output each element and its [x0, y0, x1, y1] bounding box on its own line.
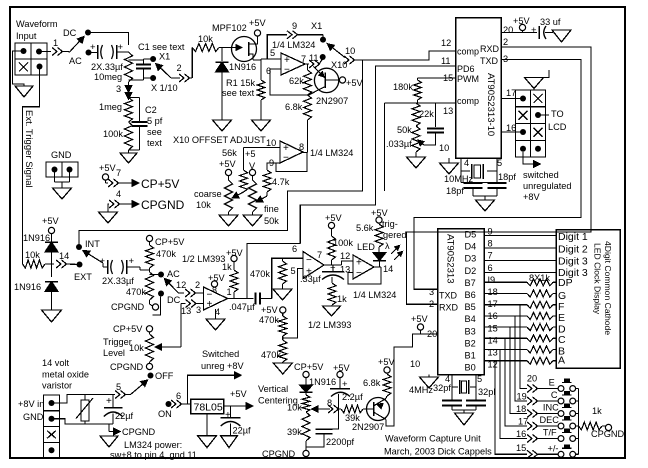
capacitor 22uf output — [221, 406, 251, 436]
node 3 arrows down — [116, 82, 132, 99]
svg-text:GND: GND — [51, 150, 72, 160]
svg-text:2X.33µf: 2X.33µf — [91, 62, 123, 72]
svg-text:LED Clock Display: LED Clock Display — [593, 243, 603, 315]
svg-text:56k: 56k — [222, 148, 237, 158]
label 14 volt metal oxide varistor — [42, 358, 89, 391]
svg-text:10meg: 10meg — [94, 72, 122, 82]
svg-text:D5: D5 — [465, 230, 477, 240]
transistor Q2 2N2907 offset — [309, 67, 340, 96]
svg-text:Level: Level — [103, 348, 125, 358]
wire comp node riser — [383, 103, 385, 191]
bus wire button +/- — [495, 361, 527, 455]
svg-text:−: − — [306, 255, 312, 266]
power +5V drain — [249, 18, 266, 36]
op-amp U1B 1/4 LM324 offset — [266, 138, 304, 168]
svg-text:33 uf: 33 uf — [540, 17, 561, 27]
svg-text:LED: LED — [357, 242, 375, 252]
svg-text:13: 13 — [443, 106, 453, 116]
svg-text:B5: B5 — [465, 302, 476, 312]
pin B7 IC2 — [465, 275, 496, 288]
svg-text:C: C — [558, 334, 566, 346]
svg-text:10: 10 — [266, 138, 276, 148]
svg-text:1k: 1k — [337, 294, 347, 304]
IC U4 AT90S2313 — [438, 229, 485, 375]
resistor 1k segment 7 — [484, 346, 556, 353]
svg-text:LM324 power:: LM324 power: — [124, 440, 182, 450]
svg-text:+5V: +5V — [378, 357, 395, 367]
svg-text:−: − — [356, 268, 362, 279]
pin 2 RXD IC2 — [429, 299, 459, 313]
svg-text:1/4 LM324: 1/4 LM324 — [272, 40, 315, 50]
ground crystal — [476, 200, 495, 211]
label switched unreg +8V — [201, 349, 245, 371]
svg-text:14: 14 — [59, 251, 69, 261]
svg-text:+: + — [118, 42, 124, 53]
resistor 6.8k vert — [363, 373, 391, 399]
svg-text:17: 17 — [506, 88, 516, 98]
svg-text:1N916: 1N916 — [309, 377, 336, 387]
svg-text:metal oxide: metal oxide — [42, 370, 89, 380]
label 1/4 LM324 offset — [310, 148, 353, 158]
svg-text:B4: B4 — [465, 314, 476, 324]
label 10MHz — [444, 174, 474, 184]
svg-text:10k: 10k — [25, 250, 40, 260]
ground LCD — [525, 70, 550, 90]
resistor 1k segment 2 — [484, 290, 556, 297]
bus wire button C — [515, 316, 527, 401]
svg-text:B0: B0 — [465, 363, 476, 373]
label C2 5pf see text — [145, 105, 163, 148]
wire ext trigger from input — [23, 67, 40, 265]
resistor 180k — [393, 78, 422, 103]
svg-text:CPGND: CPGND — [122, 427, 156, 437]
resistor 62k feedback — [289, 64, 312, 95]
LED trig — [357, 241, 403, 267]
comparator U3B LM393 triangle — [291, 244, 325, 279]
svg-text:+5: +5 — [245, 149, 255, 159]
svg-text:470k: 470k — [156, 249, 176, 259]
svg-text:2.2µf: 2.2µf — [342, 392, 363, 402]
crystal 4MHz — [445, 374, 482, 398]
svg-text:C1 see text: C1 see text — [138, 42, 185, 52]
svg-text:X1: X1 — [311, 21, 322, 31]
svg-text:470k: 470k — [126, 287, 146, 297]
label 4MHz 32pf 32pf — [409, 383, 495, 397]
labels comparator 1 pins — [176, 280, 232, 317]
connector GND — [46, 150, 78, 188]
pin B3 IC2 — [465, 323, 498, 336]
ground GND connector — [53, 188, 72, 199]
svg-text:Input: Input — [16, 31, 37, 41]
svg-text:8: 8 — [488, 239, 493, 249]
pin B0 IC2 — [465, 360, 498, 373]
svg-text:AC: AC — [167, 269, 180, 279]
svg-text:39k: 39k — [287, 427, 302, 437]
wire offset -input loop — [267, 153, 307, 172]
op-amp U1A 1/4 LM324 — [266, 40, 315, 76]
svg-text:−: − — [284, 64, 290, 75]
svg-text:1k: 1k — [222, 262, 232, 272]
varistor — [76, 395, 93, 425]
svg-text:INT: INT — [85, 239, 100, 249]
capacitor 32pf left — [442, 398, 462, 410]
switch X1/X10 wiper — [327, 43, 363, 64]
label 2N2907 offset — [316, 96, 348, 106]
svg-text:+: + — [531, 25, 537, 36]
node 2 arrows — [177, 63, 193, 82]
label TO LCD — [548, 109, 567, 132]
svg-text:C: C — [551, 390, 558, 400]
svg-text:10: 10 — [439, 143, 449, 153]
svg-text:DEC: DEC — [540, 415, 560, 425]
resistor 10meg — [125, 52, 133, 82]
wire output 14 — [374, 264, 393, 274]
svg-text:AT90S2313: AT90S2313 — [445, 234, 456, 283]
svg-text:5: 5 — [116, 382, 121, 392]
svg-text:TO: TO — [551, 109, 564, 119]
button +/- — [516, 443, 578, 458]
svg-text:16: 16 — [516, 429, 526, 439]
wire LCD row2 — [538, 114, 549, 116]
pin D3 IC2 — [465, 251, 493, 264]
svg-text:AT90S2313-10: AT90S2313-10 — [485, 73, 496, 136]
svg-text:2200pf: 2200pf — [326, 437, 355, 447]
svg-text:10k: 10k — [196, 200, 211, 210]
resistor 1k segment 3 — [484, 301, 556, 308]
svg-text:Waveform Capture Unit: Waveform Capture Unit — [385, 434, 481, 444]
svg-text:varistor: varistor — [42, 381, 72, 391]
wire plus input op3 — [342, 261, 354, 265]
label 2X.33uf 10meg — [91, 62, 123, 82]
power CP+5V trigger level — [113, 324, 153, 334]
svg-text:AC: AC — [69, 56, 82, 66]
svg-text:10k: 10k — [129, 343, 144, 353]
svg-text:MPF102: MPF102 — [212, 23, 247, 33]
wire DC bypass — [88, 33, 129, 46]
svg-text:15: 15 — [516, 443, 526, 453]
pin D5 IC2 — [465, 227, 493, 240]
svg-text:2: 2 — [429, 299, 434, 309]
label Waveform Input — [16, 19, 58, 41]
wiper vertical centering — [312, 406, 330, 412]
svg-text:7: 7 — [488, 251, 493, 261]
svg-text:I9: I9 — [488, 275, 496, 285]
capacitor C2 — [129, 98, 148, 151]
svg-text:14: 14 — [488, 335, 498, 345]
svg-text:4.7k: 4.7k — [272, 177, 290, 187]
svg-text:78L05: 78L05 — [194, 402, 223, 414]
regulator 78L05 — [191, 399, 224, 414]
svg-text:+5V: +5V — [99, 163, 116, 173]
svg-text:22µf: 22µf — [115, 411, 134, 421]
terminal CPGND trigger — [111, 302, 159, 312]
svg-text:coarse: coarse — [194, 189, 222, 199]
svg-text:X10: X10 — [331, 60, 347, 70]
button INC — [516, 403, 578, 418]
svg-text:CPGND: CPGND — [262, 449, 296, 459]
svg-text:D2: D2 — [465, 266, 477, 276]
svg-text:−: − — [283, 152, 289, 163]
wire switched unregulated arrow — [523, 152, 540, 167]
wire collector loop — [386, 334, 421, 426]
connector TO LCD — [516, 90, 546, 157]
power +5V trigger clamp — [42, 216, 59, 234]
svg-text:PWM: PWM — [457, 74, 479, 84]
resistor 1k segment 5 — [484, 324, 556, 331]
svg-text:100k: 100k — [333, 238, 353, 248]
node AC dot trigger — [150, 269, 181, 279]
resistor 100k input — [103, 122, 133, 150]
svg-text:11: 11 — [441, 56, 451, 66]
node X1-10 contact — [144, 75, 178, 93]
svg-text:unregulated: unregulated — [523, 181, 572, 191]
wire comp2 output — [324, 264, 342, 266]
svg-text:Digit 1: Digit 1 — [558, 231, 588, 243]
bus wire button INC — [510, 327, 527, 413]
resistor 1k segment 8 — [484, 357, 556, 364]
power +5V IC2 pin20 — [411, 314, 438, 339]
pin 16 wire LCD — [501, 123, 523, 133]
switch INT/EXT — [74, 239, 103, 282]
switch ON/OFF — [113, 371, 174, 399]
svg-text:DC: DC — [63, 28, 77, 38]
svg-text:+8V: +8V — [523, 192, 540, 202]
svg-text:7: 7 — [116, 168, 121, 178]
capacitor 18pf left — [446, 183, 483, 196]
svg-text:180k: 180k — [393, 82, 413, 92]
resistor 470k divider upper — [259, 313, 287, 336]
svg-text:comp: comp — [457, 47, 479, 57]
resistor 1k buttons — [578, 406, 607, 430]
ground 50k pot — [407, 157, 426, 168]
wire power top — [52, 395, 114, 404]
label 8X1k — [529, 273, 550, 283]
label X10 — [331, 60, 347, 70]
wire buffer X1 top — [267, 21, 326, 59]
capacitor 18pf right — [488, 172, 517, 196]
svg-text:OFF: OFF — [155, 371, 174, 381]
svg-text:17: 17 — [518, 417, 528, 427]
svg-text:X10 OFFSET ADJUST: X10 OFFSET ADJUST — [173, 135, 266, 145]
pin 20 power IC1 — [501, 16, 537, 35]
button DEC — [518, 415, 578, 430]
svg-text:6: 6 — [488, 263, 493, 273]
svg-text:+: + — [129, 256, 135, 267]
ground comparator 1 — [206, 309, 225, 330]
pin B5 IC2 — [465, 299, 498, 312]
label switched unregulated +8V — [523, 170, 572, 202]
svg-text:+5V: +5V — [42, 216, 59, 226]
svg-text:7: 7 — [317, 250, 322, 260]
svg-text:+5V: +5V — [261, 305, 278, 315]
svg-text:18pf: 18pf — [498, 172, 516, 182]
resistor 1k segment 6 — [484, 335, 556, 342]
svg-text:Switched: Switched — [202, 349, 239, 359]
wire switched unreg — [187, 372, 241, 404]
svg-text:B6: B6 — [465, 290, 476, 300]
power +5V trig LED — [371, 208, 388, 223]
svg-text:A: A — [558, 355, 565, 367]
wire feedback to -input — [270, 69, 308, 95]
svg-text:10: 10 — [410, 359, 420, 369]
svg-text:+: + — [106, 396, 112, 407]
svg-text:2: 2 — [503, 37, 508, 47]
node X1 contact — [144, 52, 171, 63]
resistor R1 15k source — [253, 59, 265, 120]
bus wire button T/F — [500, 350, 527, 439]
resistor 470k trigger upper — [146, 242, 177, 273]
wire DC contact to CPGND — [153, 297, 161, 315]
ground cap 22uf output — [221, 436, 238, 448]
svg-text:CP+5V: CP+5V — [113, 324, 143, 334]
label X10 OFFSET ADJUST — [173, 135, 266, 145]
svg-text:+5V: +5V — [411, 314, 428, 324]
label 2200pf — [326, 437, 355, 447]
svg-text:Waveform: Waveform — [16, 19, 58, 29]
svg-text:C2: C2 — [145, 105, 157, 115]
svg-text:20: 20 — [527, 373, 537, 383]
svg-text:comp: comp — [457, 96, 479, 106]
wire to 10k — [191, 48, 193, 79]
svg-text:12: 12 — [441, 38, 451, 48]
svg-text:+5V: +5V — [346, 78, 363, 88]
resistor 39k series — [341, 405, 363, 423]
arrows minus input comp1 — [185, 289, 204, 297]
capacitor 33uf — [531, 17, 561, 39]
label Vertical Centering — [258, 384, 298, 406]
pin 3 TXD IC2 — [429, 287, 458, 301]
svg-text:10k: 10k — [287, 403, 302, 413]
capacitor 22uf power — [104, 395, 134, 425]
capacitor C1 — [129, 59, 152, 80]
connector power input — [44, 395, 60, 458]
svg-text:D3: D3 — [465, 254, 477, 264]
resistor 1k filter — [328, 283, 347, 306]
svg-text:.033µf: .033µf — [386, 139, 412, 149]
svg-text:2N2907: 2N2907 — [316, 96, 348, 106]
capacitor 2X.33uf input — [89, 42, 129, 59]
label C1 see text — [138, 42, 185, 52]
label +8V in GND — [18, 399, 44, 422]
pot trigger level 10k — [103, 334, 154, 362]
svg-text:+5V: +5V — [249, 18, 266, 28]
IC U2 AT90S2313-10 — [456, 18, 502, 159]
svg-text:CP+5V: CP+5V — [294, 362, 324, 372]
svg-text:6: 6 — [292, 244, 297, 254]
switch SW1 DC/AC — [63, 28, 92, 66]
svg-text:6: 6 — [176, 391, 181, 401]
diode 1N916 upper — [23, 233, 58, 277]
svg-text:5: 5 — [291, 266, 296, 276]
svg-text:1meg: 1meg — [99, 102, 122, 112]
svg-text:D4: D4 — [465, 242, 477, 252]
svg-text:TXD: TXD — [480, 56, 499, 66]
ground gate clamp — [213, 120, 232, 131]
svg-text:RXD: RXD — [480, 44, 500, 54]
wire offset +input — [244, 148, 281, 171]
wire power gnd — [52, 419, 85, 424]
svg-text:+5V: +5V — [230, 389, 247, 399]
label R1 15k see text — [222, 78, 256, 98]
capacitor .033uf — [386, 103, 444, 149]
svg-text:CPGND: CPGND — [141, 198, 185, 212]
svg-text:1: 1 — [227, 287, 232, 297]
power +5V comparator 1 — [208, 273, 225, 296]
svg-text:1: 1 — [53, 38, 58, 48]
node ext arrows — [56, 260, 80, 268]
capacitor .047uf — [229, 293, 272, 313]
label 2.2uf — [342, 392, 363, 402]
svg-text:1N916: 1N916 — [14, 282, 41, 292]
svg-text:3: 3 — [116, 84, 121, 94]
svg-text:10: 10 — [345, 46, 355, 56]
wire digit row 2 — [484, 247, 556, 249]
capacitor 32pf right — [466, 398, 486, 410]
svg-text:5: 5 — [270, 48, 275, 58]
label Ext. Trigger Signal — [23, 110, 34, 188]
pot 10k vertical centering — [287, 395, 310, 413]
power +5V 78L05 output arrow — [223, 389, 252, 409]
resistor 470k pulldown — [250, 258, 287, 289]
switch AC/DC wiper — [165, 279, 185, 294]
svg-text:32pl: 32pl — [478, 387, 495, 397]
svg-text:switched: switched — [523, 170, 559, 180]
label fine 50k — [264, 204, 279, 226]
svg-text:2N2907: 2N2907 — [352, 422, 384, 432]
power CP+5V vertical centering — [294, 362, 324, 378]
resistor 1meg — [99, 98, 133, 123]
svg-text:2: 2 — [195, 280, 200, 290]
comparator U3A LM393 triangle — [204, 287, 228, 310]
svg-text:5: 5 — [497, 158, 502, 168]
svg-text:March, 2003 Dick Cappels: March, 2003 Dick Cappels — [384, 447, 492, 457]
display digit labels — [558, 231, 588, 279]
pin 11 PD6 — [300, 56, 474, 244]
svg-text:6.8k: 6.8k — [285, 102, 303, 112]
wire digit row 4 — [484, 272, 556, 274]
svg-text:λ: λ — [385, 241, 390, 251]
svg-text:100k: 100k — [103, 129, 123, 139]
svg-text:.33µf: .33µf — [300, 274, 321, 284]
svg-text:DC: DC — [167, 295, 181, 305]
wire input top pin to ground — [13, 51, 25, 86]
pot 50k PWM filter — [397, 125, 420, 157]
resistor 5.6k LED — [356, 223, 383, 247]
label LM324 power — [110, 440, 197, 460]
svg-text:18pf: 18pf — [446, 186, 464, 196]
svg-text:5.6k: 5.6k — [356, 223, 374, 233]
pot fine 50k — [245, 149, 257, 215]
label 1/4 LM324 trig — [353, 290, 396, 300]
ground below input connector — [15, 86, 33, 97]
svg-text:12: 12 — [176, 280, 186, 290]
label 1/2 LM393 — [182, 254, 225, 264]
display segment labels — [558, 277, 573, 367]
wire crystal caps — [461, 183, 497, 201]
svg-text:1/2 LM393: 1/2 LM393 — [182, 254, 225, 264]
ground IC2 pin10 — [420, 377, 439, 388]
resistor 1k pullup — [222, 248, 243, 299]
switch wiper X1 select — [156, 64, 180, 78]
transistor Q3 2N2907 vert — [363, 398, 390, 421]
node ON switch — [158, 391, 191, 419]
resistor 39k vertical centering — [287, 412, 310, 451]
svg-text:CPGND: CPGND — [111, 302, 145, 312]
wire digit row 1 — [484, 235, 556, 237]
label title — [384, 434, 492, 457]
svg-text:4MHz: 4MHz — [409, 385, 433, 395]
wiper trigger level — [150, 304, 182, 364]
